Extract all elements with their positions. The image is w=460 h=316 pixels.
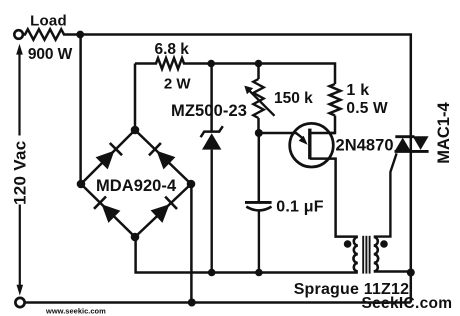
svg-text:2N4870: 2N4870 (336, 137, 394, 155)
wire load junction to bridge AC1 node (79, 35, 82, 185)
svg-text:1 k: 1 k (346, 82, 369, 99)
resistor Load 900 W (23, 29, 77, 39)
UJT emitter wire + arrow (262, 133, 308, 145)
bridge diode D1 (left node to + node) (96, 143, 122, 169)
svg-text:MDA920-4: MDA920-4 (96, 177, 177, 195)
resistor 1 k 0.5 W (330, 84, 341, 116)
junction zener/common (208, 269, 216, 277)
bridge node - (bottom) (131, 233, 140, 242)
phasing dot primary (344, 240, 352, 248)
UJT base1 wire to transformer primary (310, 159, 358, 237)
bridge rectifier MDA920-4 outline (81, 130, 191, 237)
junction emitter node (255, 129, 263, 137)
wire top rail to triac MT2 (80, 35, 411, 303)
transformer primary coil (353, 237, 357, 272)
svg-text:6.8 k: 6.8 k (154, 41, 189, 58)
bridge diode D4 (- node to right node) (151, 197, 177, 223)
transistor 2N4870 (UJT) circle (290, 123, 334, 167)
transformer secondary bottom to MT1 rail (374, 270, 411, 273)
arrow up (source polarity) (16, 44, 23, 136)
wire bridge - node to common rail (136, 237, 358, 273)
svg-text:MZ500-23: MZ500-23 (171, 102, 247, 120)
svg-text:2 W: 2 W (164, 76, 192, 93)
bridge diode D2 (right node to + node) (149, 143, 175, 169)
variable resistor 150 k (244, 79, 274, 118)
svg-text:120 Vac: 120 Vac (11, 141, 30, 206)
svg-text:www.seekic.com: www.seekic.com (45, 307, 106, 316)
wire pot top lead (257, 64, 260, 80)
phasing dot secondary (380, 240, 388, 248)
svg-text:0.1 μF: 0.1 μF (276, 199, 323, 216)
triac MAC1-4 (395, 136, 429, 151)
svg-text:Sprague 11Z12: Sprague 11Z12 (294, 281, 410, 298)
svg-text:MAC1-4: MAC1-4 (435, 102, 453, 164)
zener diode MZ500-23 (201, 126, 223, 272)
wire zener top lead (210, 64, 213, 131)
transformer core (363, 236, 369, 274)
junction cap/common (255, 269, 263, 277)
bridge node AC1 (left) (77, 180, 86, 189)
bridge node AC2 (right) (187, 180, 196, 189)
bridge diode D3 (- node to left node) (94, 197, 120, 223)
UJT base2 inner wire (310, 132, 335, 134)
terminal top-left (120 Vac hot) (14, 30, 23, 39)
junction pot top (255, 60, 263, 68)
wire node B+ across to 1k branch (207, 64, 335, 85)
junction load/top rail (76, 31, 84, 39)
wire bridge AC2 down to bottom rail (190, 184, 193, 303)
wire 1k bottom to UJT base2 (311, 116, 335, 134)
wire triac gate to transformer secondary (374, 153, 397, 236)
resistor 6.8 k 2 W (135, 58, 207, 69)
UJT base bar (308, 129, 311, 160)
bridge node + (top) (131, 126, 140, 135)
svg-text:150 k: 150 k (274, 90, 313, 107)
junction bottom rail / bridge AC2 (188, 299, 196, 307)
wire bottom rail (25, 301, 411, 304)
capacitor 0.1 uF (245, 202, 272, 272)
svg-text:900 W: 900 W (28, 46, 73, 63)
transformer secondary coil (374, 237, 378, 272)
arrow down (17, 285, 24, 296)
wire cap top lead (258, 133, 261, 201)
wire bridge + node up (134, 64, 137, 131)
svg-text:0.5 W: 0.5 W (346, 100, 388, 117)
junction zener top (207, 60, 215, 68)
wire left rail lower (19, 205, 21, 286)
junction secondary/right rail (407, 269, 415, 277)
terminal bottom-left (120 Vac return) (15, 298, 24, 307)
svg-text:Load: Load (30, 12, 67, 29)
wire pot bottom lead (257, 118, 260, 133)
